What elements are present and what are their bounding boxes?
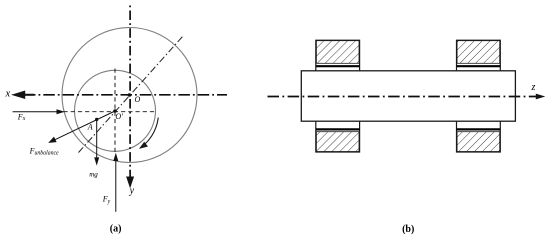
vertical dashed construction line through O' bbox=[114, 69, 116, 153]
bearing block upper-right: hatched pad bbox=[457, 41, 500, 64]
svg-text:(a): (a) bbox=[110, 224, 122, 235]
z-axis (shaft centre line, dash-dot) bbox=[268, 96, 537, 98]
bearing block lower-right: outline bbox=[457, 121, 501, 152]
F_unbalance force arrow (from O' through A, points down-left) bbox=[55, 111, 116, 140]
rotation direction curved arrow bbox=[145, 118, 159, 145]
node O (geometric centre) bbox=[128, 93, 132, 97]
x-axis arrowhead (points left) bbox=[15, 92, 35, 98]
node A (unbalance mass point) bbox=[95, 118, 98, 121]
svg-text:mg: mg bbox=[89, 171, 98, 179]
horizontal dashed construction line through O' bbox=[64, 111, 156, 113]
diagonal dash-dot line through O and O' bbox=[79, 36, 184, 153]
svg-text:z: z bbox=[530, 82, 535, 93]
mg force arrow (from A straight down) bbox=[96, 119, 98, 158]
bearing block upper-left: hatched pad bbox=[316, 41, 359, 64]
bearing block lower-right: hatched pad bbox=[457, 132, 500, 152]
bearing block lower-right: thick liner line bbox=[457, 128, 501, 130]
bearing block upper-right: thick liner line bbox=[457, 65, 501, 67]
x-axis (horizontal dash-dot centre line) bbox=[24, 94, 227, 96]
svg-text:x: x bbox=[4, 89, 10, 100]
svg-text:y: y bbox=[129, 185, 135, 196]
z-axis arrowhead (points right) bbox=[536, 94, 546, 100]
y-axis (vertical dash-dot centre line) bbox=[129, 6, 131, 177]
shaft rectangle bbox=[301, 71, 515, 121]
svg-text:O′: O′ bbox=[115, 112, 123, 121]
bearing block upper-left: thick liner line bbox=[316, 65, 360, 67]
F_x force arrow (points right, toward circle) bbox=[13, 111, 58, 113]
svg-text:O: O bbox=[135, 95, 141, 104]
bearing block lower-left: hatched pad bbox=[316, 132, 359, 152]
bearing block upper-right: outline bbox=[457, 40, 501, 71]
bearing block lower-left: outline bbox=[316, 121, 360, 152]
svg-text:(b): (b) bbox=[402, 224, 414, 235]
F_y force arrow (vertical, points up to circle bottom) bbox=[115, 160, 117, 212]
bearing block lower-left: thick liner line bbox=[316, 128, 360, 130]
node O' (rotation centre) bbox=[113, 109, 117, 113]
small circle (whirl orbit circle, center O') bbox=[75, 70, 156, 151]
big circle (rotor outer circle, center O) bbox=[62, 28, 197, 163]
bearing block upper-left: outline bbox=[316, 40, 360, 71]
y-axis arrowhead (points down) bbox=[127, 177, 134, 187]
